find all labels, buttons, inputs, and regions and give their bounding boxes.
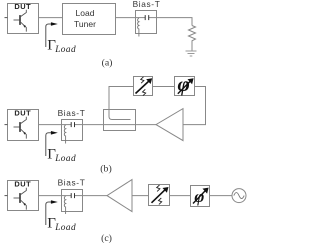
bias-T U2 (b) <box>58 108 86 141</box>
variable attenuator (c) <box>149 185 170 206</box>
svg-text:Load: Load <box>54 45 76 55</box>
wire attenuator to phase shifter (b) <box>153 86 175 88</box>
inductor L2 (bias-T b) <box>64 125 65 143</box>
load tuner block (a) <box>63 4 116 35</box>
wire input stub (a) <box>5 17 8 19</box>
node Gamma_Load arrow (a) <box>46 22 58 47</box>
svg-text:DUT: DUT <box>14 180 31 189</box>
label Gamma_Load (b) <box>47 146 76 164</box>
bias-T U3 (c) <box>58 177 86 211</box>
wire DUT to bias-T (b) <box>38 124 62 126</box>
amplifier A1 (b) <box>156 109 183 141</box>
svg-text:Bias-T: Bias-T <box>58 108 86 118</box>
resistor R1 termination (a) <box>189 26 196 52</box>
inductor L3 (bias-T c) <box>64 196 65 214</box>
wire phase shifter to source (c) <box>209 195 232 197</box>
directional coupler (b) <box>104 110 136 131</box>
wire DUT to load tuner (a) <box>38 17 62 19</box>
svg-text:(a): (a) <box>102 58 113 69</box>
DUT block (b) <box>8 109 39 141</box>
svg-text:Tuner: Tuner <box>74 19 96 29</box>
transistor Q2 (inside DUT, b) <box>14 117 27 139</box>
DUT block (c) <box>8 180 39 211</box>
wire bias-T to resistor (a) <box>156 18 192 26</box>
svg-text:Load: Load <box>54 154 76 164</box>
wire tuner to bias-T (a) <box>115 17 135 19</box>
svg-text:Load: Load <box>76 8 95 18</box>
variable phase shifter (b) <box>175 72 195 96</box>
wire amplifier to attenuator (c) <box>132 195 149 197</box>
inductor L1 (bias-T a) <box>138 18 139 36</box>
label Gamma_Load (c) <box>47 216 76 234</box>
wire amplifier input loop (b) <box>183 87 206 125</box>
svg-text:(c): (c) <box>101 233 112 244</box>
svg-text:Bias-T: Bias-T <box>133 0 161 9</box>
amplifier A2 (c) <box>107 180 132 212</box>
transistor Q3 (inside DUT, c) <box>14 188 27 210</box>
wire attenuator to phase shifter (c) <box>170 195 190 197</box>
wire input stub (b) <box>5 124 8 126</box>
wire input stub (c) <box>5 195 8 197</box>
svg-text:DUT: DUT <box>14 2 31 11</box>
svg-text:Load: Load <box>54 223 76 233</box>
wire bias-T to amplifier (c) <box>83 195 108 197</box>
svg-text:DUT: DUT <box>14 109 31 118</box>
wire bias-T to coupler to amplifier (b) <box>83 124 157 126</box>
node Gamma_Load arrow (c) <box>46 200 58 225</box>
capacitor C3 (bias-T c) <box>71 193 74 198</box>
variable attenuator (b) <box>134 77 153 96</box>
capacitor C1 (bias-T a) <box>145 15 149 20</box>
svg-text:Bias-T: Bias-T <box>58 177 86 187</box>
DUT block (a) <box>8 2 39 33</box>
signal source V1 (c) <box>232 189 246 203</box>
label Gamma_Load (a) <box>47 38 76 56</box>
bias-T U1 (a) <box>133 0 161 33</box>
svg-text:(b): (b) <box>100 164 111 175</box>
transistor Q1 (inside DUT, a) <box>14 10 27 32</box>
node Gamma_Load arrow (b) <box>46 131 58 156</box>
ground (a) <box>186 51 197 56</box>
capacitor C2 (bias-T b) <box>71 122 74 127</box>
wire DUT to bias-T (c) <box>38 195 62 197</box>
wire coupler to attenuator (b) <box>109 87 134 117</box>
variable phase shifter (c) <box>191 186 210 207</box>
